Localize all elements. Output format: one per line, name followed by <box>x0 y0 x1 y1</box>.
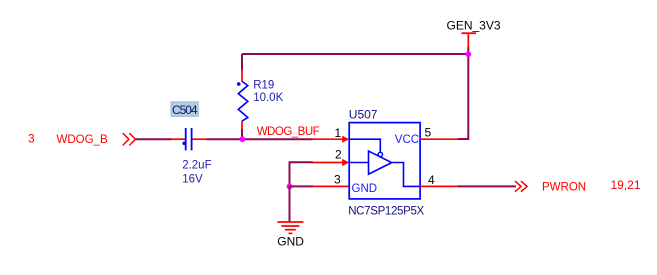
wire pin 2 branch <box>290 162 314 186</box>
svg-text:16V: 16V <box>182 173 203 185</box>
node junction at GEN_3V3 <box>465 51 471 57</box>
svg-text:3: 3 <box>334 173 341 187</box>
resistor R19 body <box>237 81 248 121</box>
svg-text:3: 3 <box>28 132 35 146</box>
wire connector to capacitor C504 <box>136 138 172 140</box>
node junction WDOG_BUF <box>239 136 245 142</box>
U507 pin 2 (input, with arrowhead) <box>313 159 350 166</box>
wire capacitor to WDOG_BUF junction and pin 1 <box>207 138 313 140</box>
U507 pin 5 (VCC pin) <box>420 138 458 140</box>
svg-text:10.0K: 10.0K <box>253 92 283 104</box>
wire resistor bottom to junction <box>241 129 243 139</box>
svg-text:R19: R19 <box>253 79 274 91</box>
svg-text:GND: GND <box>352 183 378 195</box>
off-page connector WDOG_B (double chevron) <box>123 133 136 145</box>
svg-text:NC7SP125P5X: NC7SP125P5X <box>348 206 424 218</box>
svg-text:GEN_3V3: GEN_3V3 <box>447 18 501 32</box>
svg-text:2: 2 <box>335 148 342 162</box>
wire top horizontal from resistor top to GEN_3V3 node <box>242 53 468 55</box>
capacitor C504 body <box>182 128 191 150</box>
svg-text:GND: GND <box>277 234 304 248</box>
U507 pin 3 (GND pin) <box>313 185 350 187</box>
svg-text:19,21: 19,21 <box>611 178 641 192</box>
svg-text:PWRON: PWRON <box>542 181 586 193</box>
label C504 (highlighted) <box>171 102 198 117</box>
wire pin 3 to junction <box>290 185 314 187</box>
node junction at GND branch <box>287 184 293 190</box>
capacitor C504 left pin <box>171 138 185 140</box>
svg-text:U507: U507 <box>349 108 378 122</box>
wire junction down to ground <box>289 186 291 222</box>
svg-text:4: 4 <box>428 173 435 187</box>
U507 pin 4 (output pin) <box>420 185 458 187</box>
svg-text:WDOG_B: WDOG_B <box>57 134 108 146</box>
svg-text:C504: C504 <box>172 103 198 117</box>
svg-text:WDOG_BUF: WDOG_BUF <box>257 126 320 138</box>
U507 pin 1 (input, with arrowhead) <box>312 136 349 143</box>
ground symbol <box>277 222 303 233</box>
resistor R19 top pin <box>241 69 243 81</box>
svg-text:1: 1 <box>335 126 342 140</box>
svg-text:2.2uF: 2.2uF <box>182 159 211 171</box>
svg-text:5: 5 <box>425 126 432 140</box>
resistor R19 bottom pin <box>241 121 243 129</box>
wire resistor top to corner <box>241 54 243 70</box>
buffer U507 body (NC7SP125P5X tri-state buffer) <box>349 123 420 199</box>
off-page connector PWRON (double chevron) <box>515 181 527 192</box>
wire pin 4 to PWRON connector <box>458 185 516 187</box>
wire vertical from GEN_3V3 node down to pin 5 wire <box>458 47 468 139</box>
power symbol GEN_3V3 <box>462 33 477 48</box>
svg-text:VCC: VCC <box>395 134 419 146</box>
capacitor C504 right pin <box>192 138 207 140</box>
